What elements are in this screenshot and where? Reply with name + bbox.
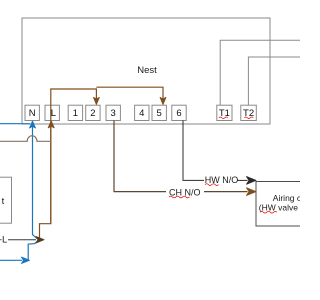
svg-text:N: N <box>29 108 36 119</box>
arrow into N from below <box>30 121 36 128</box>
HW wire from terminal 6 <box>183 121 204 181</box>
svg-text:L: L <box>51 108 56 119</box>
terminal 5 <box>152 105 166 120</box>
svg-text:HW N/O: HW N/O <box>205 175 239 185</box>
terminal L <box>45 105 59 120</box>
brown arrow into airing cupboard (CH) <box>247 188 257 196</box>
Nest heat link enclosure box <box>22 18 270 124</box>
blue neutral wire down from N <box>28 126 39 260</box>
black arrow into airing cupboard (HW) <box>247 177 257 185</box>
svg-text:(HW valve w: (HW valve w <box>259 202 300 212</box>
CH wire from terminal 3 <box>114 121 166 192</box>
terminal T1 <box>217 105 232 120</box>
blue mains wire into N from left <box>0 123 30 125</box>
svg-text:4: 4 <box>139 108 144 119</box>
terminal 2 <box>86 105 100 120</box>
jumper wire with hop over blue wire <box>0 136 51 142</box>
terminal 3 <box>106 105 120 120</box>
svg-text:2: 2 <box>90 108 95 119</box>
arrow into terminal 5 <box>160 97 166 104</box>
svg-text:-L: -L <box>0 235 7 246</box>
svg-text:Nest: Nest <box>137 65 157 76</box>
terminal 1 <box>68 105 82 120</box>
terminal 4 <box>135 105 149 120</box>
svg-text:6: 6 <box>176 108 181 119</box>
blue arrow wire bottom left <box>0 259 22 261</box>
arrow into terminal 2 <box>94 97 100 104</box>
brown wire from L down to junction <box>40 126 51 240</box>
boiler box bottom left <box>0 177 12 223</box>
wire T1 to top right <box>220 40 301 105</box>
wire T2 to right <box>248 57 301 105</box>
brown link wire 2 to terminal 5 <box>96 87 163 102</box>
arrow into L from below <box>48 121 54 128</box>
svg-text:t: t <box>2 196 5 207</box>
terminal T2 <box>241 105 256 120</box>
terminal 6 <box>172 105 186 120</box>
terminal N <box>25 105 39 120</box>
wire -L with arrow into junction <box>8 239 36 241</box>
brown link wire L to terminal 2 <box>51 89 97 224</box>
svg-text:5: 5 <box>157 108 162 119</box>
airing cupboard box <box>256 182 302 227</box>
svg-text:3: 3 <box>111 108 116 119</box>
svg-text:1: 1 <box>73 108 78 119</box>
